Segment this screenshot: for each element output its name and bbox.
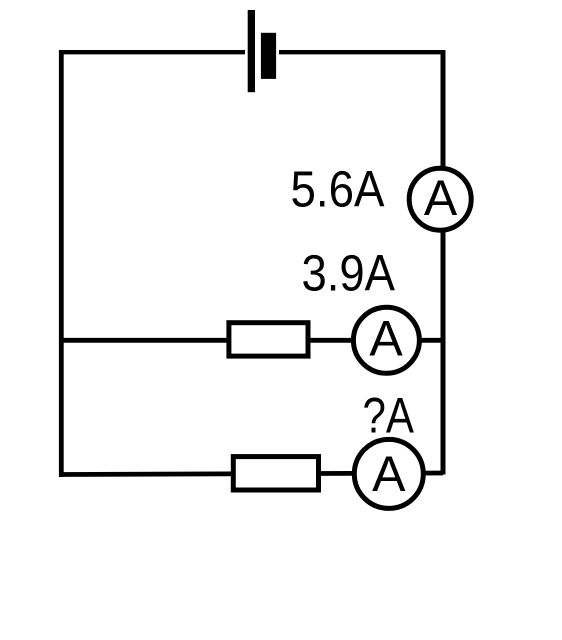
ammeter A1 circle (top right, series ammeter)	[409, 168, 471, 230]
svg-text:?A: ?A	[363, 388, 415, 444]
wire: bottom branch horizontal	[59, 473, 443, 475]
resistor R1 (middle branch)	[229, 323, 308, 356]
wire: top right segment (battery to corner)	[279, 50, 445, 54]
ammeter A3 circle (bottom branch)	[354, 439, 423, 508]
resistor R2 (bottom branch)	[233, 457, 318, 490]
svg-text:A: A	[372, 446, 406, 502]
battery B1 long plate	[248, 10, 255, 92]
battery B1 short thick plate	[261, 33, 276, 79]
svg-text:A: A	[369, 311, 403, 367]
ammeter A2 circle (middle branch)	[353, 307, 419, 373]
wire: top left segment (corner to battery)	[59, 50, 245, 54]
svg-text:5.6A: 5.6A	[291, 161, 385, 218]
svg-text:3.9A: 3.9A	[302, 245, 396, 302]
svg-text:A: A	[424, 170, 458, 226]
wire: middle branch horizontal	[59, 338, 443, 343]
wire: right vertical side of loop	[441, 50, 446, 475]
wire: left vertical side of loop	[59, 50, 64, 477]
